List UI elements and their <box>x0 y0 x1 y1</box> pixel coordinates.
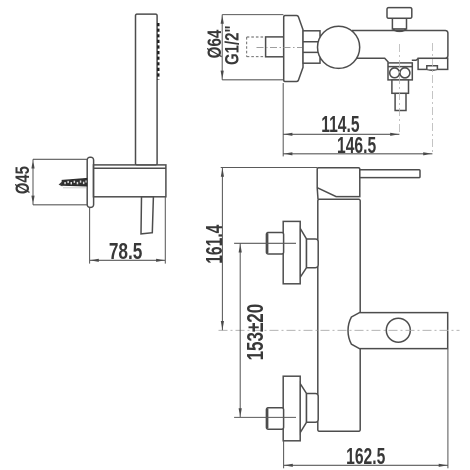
knob collar <box>393 29 405 32</box>
valve ball <box>318 26 360 68</box>
spout underside panel <box>418 58 448 69</box>
wall flange (escutcheon) <box>87 157 93 207</box>
diverter body <box>392 80 409 93</box>
knob stem <box>392 18 406 29</box>
top eccentric: cone <box>300 228 306 277</box>
bottom eccentric: pipe <box>307 394 319 423</box>
dimension Ø45 <box>33 159 87 205</box>
bottom eccentric: nut <box>266 408 283 430</box>
svg-text:78.5: 78.5 <box>109 240 143 265</box>
dimension 153±20 <box>234 243 296 417</box>
aerator tab <box>427 66 438 70</box>
top eccentric: nut <box>266 233 283 255</box>
bottom eccentric: cone <box>300 384 306 433</box>
connector centerline <box>257 47 303 49</box>
dimension Ø64 <box>222 15 283 80</box>
G1/2 thread indication <box>247 37 266 57</box>
top cap <box>317 168 360 197</box>
knurled supply fitting <box>62 178 87 186</box>
diverter valve block <box>388 63 412 80</box>
holder arm <box>93 165 165 197</box>
top eccentric: flange <box>283 221 300 283</box>
svg-text:153±20: 153±20 <box>244 304 269 361</box>
lever handle <box>360 170 420 178</box>
shower wand <box>136 14 158 165</box>
spout centerline <box>219 329 460 331</box>
svg-text:162.5: 162.5 <box>346 444 385 470</box>
hose drop below holder <box>141 197 153 234</box>
spray nozzle dashed face <box>157 23 159 80</box>
knob cap <box>387 8 412 19</box>
body column <box>318 199 360 431</box>
svg-text:G1/2": G1/2" <box>222 25 243 65</box>
centerline spout outlet <box>431 43 433 154</box>
wall flange <box>284 16 303 82</box>
body (horizontal) <box>352 31 448 61</box>
spout front <box>348 313 448 349</box>
wall extension line <box>282 83 284 156</box>
svg-text:161.4: 161.4 <box>202 225 228 264</box>
hex adapter nut <box>303 31 320 63</box>
dimension 78.5 <box>90 197 166 264</box>
G1/2 wall connector <box>266 37 284 57</box>
dimension 146.5 <box>283 153 432 155</box>
top eccentric: pipe <box>307 239 319 268</box>
dimension 162.5 <box>284 348 448 468</box>
handshower outlet tip <box>395 93 406 110</box>
svg-text:146.5: 146.5 <box>337 133 376 159</box>
centerline diverter <box>398 44 400 135</box>
svg-text:Ø45: Ø45 <box>12 166 33 194</box>
dimension 114.5 <box>283 133 399 135</box>
dimension 161.4 <box>221 168 318 331</box>
bottom eccentric: flange <box>283 376 300 441</box>
spout outlet circle <box>386 318 410 342</box>
